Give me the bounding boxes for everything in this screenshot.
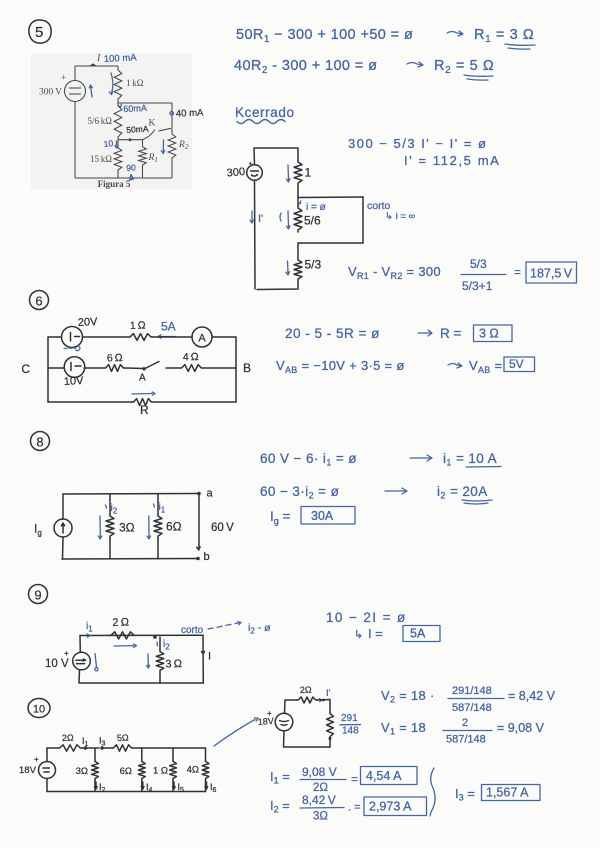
boxed 2.973A: [364, 797, 427, 816]
svg-text:6Ω: 6Ω: [166, 520, 182, 534]
left wire with node C: [47, 337, 49, 402]
resistor 1 Ohm top: [128, 334, 153, 341]
svg-text:+: +: [249, 161, 253, 168]
arrow to R result: [418, 330, 432, 336]
svg-text:i1 = 10 A: i1 = 10 A: [443, 451, 497, 468]
svg-text:5/3+1: 5/3+1: [462, 279, 493, 293]
wire to 6ohm: [84, 367, 104, 369]
bottom wire: [47, 791, 206, 793]
svg-text:R =: R =: [440, 326, 462, 341]
resistor 6 Ohm: [157, 494, 159, 514]
bottom wire: [75, 177, 172, 179]
svg-text:A: A: [198, 333, 206, 345]
underline 5 Ohm: [464, 75, 493, 80]
svg-text:18V: 18V: [19, 765, 37, 776]
resistor R1: [139, 140, 147, 172]
svg-text:2 Ω: 2 Ω: [112, 616, 129, 629]
svg-text:=: =: [514, 265, 521, 279]
svg-text:5A: 5A: [410, 627, 426, 641]
svg-text:= 8,42 V: = 8,42 V: [508, 689, 556, 703]
svg-text:Ig =: Ig =: [270, 509, 291, 526]
svg-text:↳: ↳: [354, 629, 363, 641]
wire node with R1 branch: [118, 139, 143, 141]
I5 arrow: [173, 782, 175, 788]
top wire: [63, 493, 199, 496]
svg-text:300: 300: [226, 166, 245, 180]
svg-text:=: =: [351, 772, 358, 786]
blue down arrow beside 5/6: [287, 211, 290, 227]
bottom branch: [48, 401, 132, 403]
curly brace: [430, 768, 435, 816]
resistor 5 Ohm: [112, 745, 133, 751]
svg-text:10: 10: [33, 704, 45, 716]
svg-text:60 − 3·i2 = ø: 60 − 3·i2 = ø: [260, 484, 339, 501]
resistor 3 Ohm (v): [159, 637, 161, 650]
svg-text:I =: I =: [368, 626, 383, 641]
svg-text:2,973 A: 2,973 A: [369, 800, 412, 814]
bottom wire: [80, 682, 203, 684]
source 20V: [62, 327, 83, 348]
resistor 5/6 kOhm: [114, 103, 122, 140]
svg-text:I: I: [208, 651, 211, 663]
problem number 9 (circled): [29, 585, 48, 604]
resistor 2 Ohm: [58, 745, 82, 751]
svg-text:B: B: [243, 361, 251, 375]
svg-text:1 kΩ: 1 kΩ: [126, 78, 144, 88]
wire 4ohm to B: [166, 367, 180, 369]
underline 3 Ohm: [505, 44, 535, 49]
blue down arrow right of source: [95, 654, 97, 668]
node dot: [153, 635, 157, 639]
svg-text:5/3: 5/3: [470, 257, 487, 271]
svg-text:6 Ω: 6 Ω: [107, 352, 123, 365]
bottom wire: [62, 558, 198, 561]
wire node to right branch: [118, 102, 172, 104]
left wires: [79, 636, 81, 653]
resistor 15 kOhm: [114, 140, 122, 178]
svg-text:2: 2: [462, 717, 468, 729]
svg-text:5/3: 5/3: [305, 258, 322, 272]
svg-text:5V: 5V: [509, 357, 524, 371]
equiv resistor 291/148: [327, 712, 334, 738]
resistor 1 kOhm: [114, 66, 122, 103]
svg-text:300 − 5/3 I' − I' = ø: 300 − 5/3 I' − I' = ø: [348, 136, 487, 151]
svg-text:b: b: [204, 551, 210, 563]
corto box: [298, 197, 363, 243]
equivalent source 18V: [275, 713, 293, 731]
blue tick at bottom node: [130, 175, 134, 181]
svg-text:2Ω: 2Ω: [62, 733, 74, 743]
top wire: [47, 747, 58, 749]
svg-text:i = ø: i = ø: [306, 202, 326, 213]
bottom wire: [257, 281, 298, 290]
svg-text:60 V: 60 V: [211, 522, 234, 534]
resistor 6 Ohm (v): [141, 748, 143, 760]
voltage source V1 300V (printed): [65, 81, 86, 102]
svg-text:2Ω: 2Ω: [300, 685, 312, 695]
annotation 60 mA: [118, 104, 121, 107]
svg-text:3 Ω: 3 Ω: [165, 658, 182, 671]
annotation 40 mA with node circle: [170, 112, 174, 116]
svg-text:50R1 − 300 + 100 +50 = ø: 50R1 − 300 + 100 +50 = ø: [236, 27, 413, 45]
wire ammeter to B: [212, 336, 236, 338]
problem number 6 (circled): [30, 291, 49, 310]
voltage source 10V: [73, 652, 91, 670]
svg-text:corto: corto: [181, 625, 204, 636]
svg-text:Figura 5: Figura 5: [98, 179, 131, 189]
left wire: [74, 102, 76, 179]
svg-text:3Ω: 3Ω: [313, 811, 328, 823]
current arrow I (printed): [89, 63, 97, 66]
middle branch: [48, 367, 64, 369]
svg-text:I2 =: I2 =: [270, 798, 290, 815]
svg-text:291: 291: [341, 713, 358, 724]
resistor 3 Ohm (v): [94, 748, 96, 760]
svg-text:300 V: 300 V: [39, 88, 62, 98]
blue down arrow beside R2: [162, 140, 164, 152]
ammeter A: [192, 327, 212, 347]
boxed 5V: [504, 357, 535, 372]
svg-text:60mA: 60mA: [123, 103, 147, 114]
svg-text:3Ω: 3Ω: [76, 766, 88, 777]
svg-text:R2 = 5 Ω: R2 = 5 Ω: [434, 58, 494, 76]
svg-text:I': I': [258, 213, 263, 225]
svg-text:15 kΩ: 15 kΩ: [90, 154, 112, 164]
equiv wires: [285, 700, 298, 713]
wire to corto node: [297, 185, 299, 198]
svg-text:148: 148: [342, 726, 359, 737]
svg-text:30A: 30A: [311, 509, 334, 523]
node a: [197, 492, 201, 496]
svg-text:291/148: 291/148: [452, 685, 492, 697]
arrow to VAB result: [448, 363, 462, 368]
svg-text:187,5 V: 187,5 V: [530, 267, 573, 281]
svg-text:V2 = 18 ·: V2 = 18 ·: [381, 688, 435, 705]
equiv resistor 2 Ohm: [297, 697, 317, 703]
svg-text:3 Ω: 3 Ω: [479, 327, 499, 341]
svg-text:50mA: 50mA: [126, 123, 149, 135]
problem number 5 (circled): [29, 20, 51, 43]
svg-text:+: +: [61, 73, 66, 83]
arrow to R2 result: [407, 62, 423, 67]
svg-text:40 mA: 40 mA: [176, 108, 204, 120]
svg-text:4,54 A: 4,54 A: [366, 769, 402, 783]
svg-text:587/148: 587/148: [452, 702, 492, 714]
svg-text:5/6: 5/6: [304, 214, 321, 228]
svg-text:20V: 20V: [78, 316, 99, 329]
svg-text:10 V: 10 V: [45, 658, 69, 670]
right branch 60V: [198, 494, 200, 549]
svg-text:↳ i = ∞: ↳ i = ∞: [385, 211, 416, 222]
wavy underline: [237, 120, 285, 124]
svg-text:I' = 112,5 mA: I' = 112,5 mA: [404, 153, 500, 168]
svg-text:10V: 10V: [64, 375, 85, 388]
svg-text:9,08 V: 9,08 V: [302, 765, 337, 779]
svg-text:K: K: [149, 119, 156, 129]
svg-text:1: 1: [305, 166, 312, 180]
resistor 2 Ohm (h): [109, 632, 136, 639]
svg-text:5/6 kΩ: 5/6 kΩ: [88, 116, 113, 126]
right wire and resistor R2: [171, 103, 173, 133]
svg-text:+: +: [64, 649, 69, 658]
equiv bottom wire: [284, 731, 331, 747]
problem number 10 (circled): [28, 699, 50, 718]
boxed 4.54A: [361, 767, 418, 785]
resistor 1 Ohm (v): [172, 748, 174, 760]
voltage source 300V (hand): [247, 165, 263, 181]
wire to switch node A: [125, 367, 144, 370]
svg-text:10 − 2I = ø: 10 − 2I = ø: [326, 610, 407, 625]
svg-text:I: I: [96, 53, 101, 64]
resistor 5/6 (hand): [297, 198, 299, 207]
svg-text:R: R: [140, 403, 149, 417]
blue i=0 label: [298, 201, 301, 204]
resistor 3 Ohm: [109, 494, 111, 514]
node I3: [100, 746, 103, 749]
svg-text:5Ω: 5Ω: [117, 733, 129, 743]
svg-text:A: A: [139, 373, 146, 384]
svg-text:18V: 18V: [257, 716, 274, 727]
resistor 4 Ohm (v): [205, 748, 207, 760]
node I1: [84, 746, 87, 749]
resistor 1 (hand): [294, 160, 302, 185]
top branch wire: [48, 336, 61, 338]
svg-text:10: 10: [103, 138, 114, 149]
svg-text:100 mA: 100 mA: [104, 52, 138, 65]
resistor R bottom: [132, 399, 153, 406]
svg-text:6Ω: 6Ω: [120, 766, 132, 777]
svg-text:. =: . =: [348, 802, 361, 814]
blue down arrow beside 1k: [111, 73, 113, 93]
underline 10A: [466, 466, 501, 469]
svg-text:C: C: [21, 362, 30, 376]
blue arrow under 20V source: [64, 347, 76, 350]
svg-text:9: 9: [34, 588, 41, 603]
switch blade at A: [146, 362, 159, 369]
svg-text:R1 = 3 Ω: R1 = 3 Ω: [474, 27, 534, 45]
svg-text:40R2 - 300 + 100 = ø: 40R2 - 300 + 100 = ø: [234, 58, 377, 76]
source 10V: [64, 357, 85, 378]
svg-text:5A: 5A: [161, 320, 176, 334]
right branch with I: [202, 635, 204, 683]
svg-text:60 V − 6· i1 = ø: 60 V − 6· i1 = ø: [260, 451, 357, 468]
printed figure background: [31, 53, 192, 189]
resistor 6 Ohm: [104, 365, 125, 372]
svg-text:3Ω: 3Ω: [119, 521, 135, 535]
svg-text:= 9,08 V: = 9,08 V: [497, 721, 545, 735]
left wire: [254, 180, 257, 289]
svg-text:5: 5: [35, 24, 43, 41]
svg-text:4Ω: 4Ω: [187, 765, 199, 776]
svg-text:8: 8: [36, 435, 43, 450]
right wire with node B: [235, 337, 237, 402]
top wire: [80, 634, 203, 636]
wire to 1ohm: [83, 336, 129, 338]
svg-text:1 Ω: 1 Ω: [153, 766, 168, 777]
svg-text:587/148: 587/148: [446, 734, 486, 746]
svg-text:1 Ω: 1 Ω: [130, 319, 146, 332]
wires left: [46, 748, 48, 762]
I2 arrow: [95, 787, 98, 789]
blue down arrow beside 5/3: [287, 261, 290, 273]
blue arrow above R: [132, 393, 152, 396]
svg-text:6: 6: [35, 294, 42, 309]
svg-text:8,42 V: 8,42 V: [302, 793, 336, 807]
svg-text:I': I': [326, 688, 331, 699]
svg-text:V1 = 18: V1 = 18: [381, 720, 426, 737]
long arrow: [410, 455, 432, 461]
arrow to R1 result: [447, 31, 463, 36]
resistor 5/3 (hand): [294, 258, 302, 281]
wire top: [254, 148, 298, 165]
blue down arrow beside R1hand: [287, 165, 290, 180]
wire to 5/3: [297, 243, 299, 258]
node b: [196, 557, 200, 561]
long arrow 2: [385, 488, 407, 494]
switch K blade: [143, 130, 156, 140]
svg-text:I3 =: I3 =: [455, 786, 475, 803]
voltage source 18V: [39, 762, 56, 779]
svg-text:I1 =: I1 =: [270, 769, 290, 786]
I4 arrow: [142, 782, 144, 788]
svg-text:Kcerrado: Kcerrado: [235, 105, 295, 120]
svg-text:90: 90: [126, 162, 136, 173]
svg-text:a: a: [207, 488, 214, 500]
problem number 8 (circled): [31, 432, 50, 451]
blue arrow under 2ohm: [114, 645, 134, 647]
I6 arrow: [206, 782, 208, 788]
equiv right wire: [317, 700, 330, 713]
blue up arrow at source: [89, 85, 92, 97]
svg-text:+: +: [34, 755, 39, 764]
svg-text:4 Ω: 4 Ω: [183, 351, 199, 364]
top wire right part: [133, 747, 206, 749]
boxed 3 Ohm: [474, 325, 513, 342]
underline 20A: [462, 500, 492, 504]
svg-text:1,567 A: 1,567 A: [486, 786, 529, 800]
svg-text:20 - 5 - 5R = ø: 20 - 5 - 5R = ø: [285, 326, 380, 341]
current source Ig: [54, 519, 72, 537]
wire top-left: [75, 66, 118, 81]
wire to ammeter: [153, 336, 192, 338]
blue curved arrow to equivalent: [214, 720, 255, 747]
